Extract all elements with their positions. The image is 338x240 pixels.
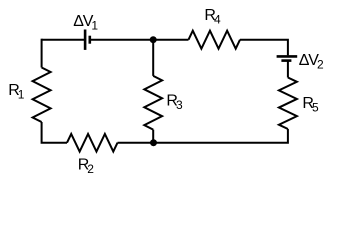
resistor R2 xyxy=(67,134,118,152)
wire right-middle segment xyxy=(287,61,289,78)
svg-text:R2: R2 xyxy=(78,157,95,177)
svg-text:ΔV2: ΔV2 xyxy=(299,52,324,72)
wire left-top segment xyxy=(41,39,43,68)
wire right-bottom segment xyxy=(118,129,288,143)
svg-text:R4: R4 xyxy=(204,7,221,27)
wire top-middle segment xyxy=(90,39,189,41)
battery V2 plates xyxy=(277,56,298,60)
wire bottom-left segment xyxy=(42,122,67,143)
wire middle-top segment xyxy=(152,40,154,76)
resistor R4 xyxy=(189,31,241,49)
svg-text:R3: R3 xyxy=(166,93,183,113)
node top junction xyxy=(150,36,157,43)
resistor R3 xyxy=(144,76,162,130)
battery V1 plates xyxy=(85,30,90,50)
resistor R5 xyxy=(279,78,297,130)
resistor R1 xyxy=(33,68,51,123)
wire top-right segment xyxy=(240,40,288,56)
svg-text:R1: R1 xyxy=(8,82,25,102)
wire middle-bottom segment xyxy=(152,130,154,143)
node bottom junction xyxy=(150,139,157,146)
svg-text:R5: R5 xyxy=(302,95,319,115)
wire top-left segment xyxy=(42,39,85,41)
svg-text:ΔV1: ΔV1 xyxy=(73,13,98,33)
